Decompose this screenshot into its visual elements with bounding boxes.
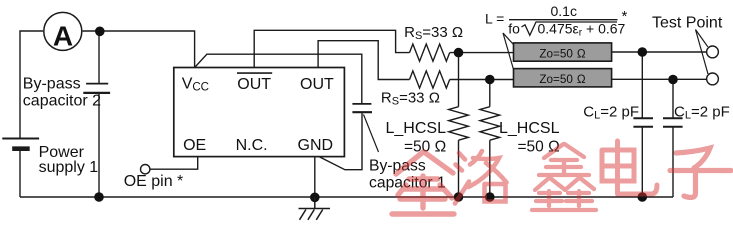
svg-text:RS=33 Ω: RS=33 Ω xyxy=(404,24,463,42)
watermark char jin (gold) xyxy=(392,152,454,214)
ammeter A1 xyxy=(44,12,82,51)
test point circle 2 xyxy=(707,73,719,85)
junction dot CL2 top xyxy=(668,75,678,85)
svg-text:By-pass: By-pass xyxy=(23,75,81,92)
junction dot Rs2/LHCSL xyxy=(485,75,495,85)
wire OUTbar net riser to Rs1 xyxy=(254,30,409,67)
wire GND pin riser xyxy=(314,157,316,197)
svg-text:OUT: OUT xyxy=(300,76,334,93)
junction dot Rs1/LHCSL xyxy=(454,48,464,58)
junction dot CL1 top xyxy=(638,47,648,57)
wire bypass cap1 bottom to GND pin xyxy=(320,113,363,170)
resistor RS2 zigzag xyxy=(410,71,450,88)
wire bottom rail xyxy=(20,196,673,198)
wire Rs2 to Zo box2 xyxy=(450,79,514,81)
wire battery to bottom rail xyxy=(19,150,21,197)
wire bypass cap1 top: diagonal from VCC corner then across xyxy=(195,54,362,103)
resistor RS1 zigzag xyxy=(410,44,450,61)
leader test point 2 xyxy=(696,30,709,75)
transmission line Zo box2 xyxy=(514,69,612,87)
OE pin open circle xyxy=(141,165,150,174)
ground symbol xyxy=(299,197,331,220)
svg-text:OUT: OUT xyxy=(237,76,271,93)
svg-text:CL=2 pF: CL=2 pF xyxy=(583,103,639,121)
svg-text:Test Point: Test Point xyxy=(652,14,723,31)
svg-text:supply 1: supply 1 xyxy=(39,159,99,176)
capacitor bypass C2 plates xyxy=(83,84,110,93)
watermark char xin (triple gold) xyxy=(532,144,596,210)
svg-text:RS=33 Ω: RS=33 Ω xyxy=(381,90,440,108)
formula L = 0.1c / (fo sqrt(0.475er+0.67)) xyxy=(485,3,628,39)
leader test point 1 xyxy=(696,30,708,47)
wire CL cap1 leads xyxy=(641,52,643,118)
wire OUT net riser to Rs2 xyxy=(318,41,409,80)
leader formula to box2 xyxy=(503,33,514,70)
capacitor bypass C1 plates xyxy=(352,104,372,112)
resistor L_HCSL right leads and zigzag xyxy=(489,80,491,107)
wire Rs1 to Zo box1 xyxy=(450,52,514,54)
wire Zo box2 to test point 2 xyxy=(612,78,707,80)
junction dot rail CL1 xyxy=(638,192,648,202)
leader bypass cap1 label xyxy=(364,115,379,153)
svg-text:L_HCSL: L_HCSL xyxy=(386,120,447,137)
svg-text:capacitor 2: capacitor 2 xyxy=(23,93,101,110)
svg-text:0.1c: 0.1c xyxy=(551,3,577,19)
junction dot rail LHCSL left xyxy=(454,192,464,202)
capacitor CL1 plates xyxy=(633,118,653,126)
svg-text:A: A xyxy=(53,20,73,51)
junction dot rail LHCSL right xyxy=(485,192,495,202)
capacitor CL2 plates xyxy=(663,118,683,126)
svg-text:GND: GND xyxy=(298,137,334,154)
test point circle 1 xyxy=(707,46,719,58)
wire CL cap2 leads xyxy=(672,79,674,118)
battery power supply 1 xyxy=(2,139,39,149)
svg-text:fo: fo xyxy=(508,21,520,37)
wire left vertical from ammeter to battery xyxy=(20,31,43,138)
watermark char zi (child) xyxy=(670,148,731,197)
svg-text:OE: OE xyxy=(183,137,206,154)
watermark char dian (electric) xyxy=(602,141,657,194)
radical sign xyxy=(522,22,618,35)
svg-text:N.C.: N.C. xyxy=(236,137,268,154)
wire Zo box1 to test point 1 xyxy=(612,51,707,53)
watermark red CJK text xyxy=(392,141,731,214)
resistor L_HCSL left leads and zigzag xyxy=(458,53,460,107)
junction dot rail GND xyxy=(310,193,320,203)
junction dot top rail cap2 xyxy=(95,27,105,37)
IC U1 box xyxy=(174,68,345,157)
watermark char luo xyxy=(455,151,507,204)
svg-text:L_HCSL: L_HCSL xyxy=(499,120,560,137)
wire OE pin xyxy=(150,157,198,170)
svg-text:L =: L = xyxy=(485,11,504,27)
svg-text:CL=2 pF: CL=2 pF xyxy=(674,103,730,121)
leader formula to box1 xyxy=(503,33,514,45)
svg-text:*: * xyxy=(622,8,628,25)
wire ammeter to VCC riser xyxy=(83,31,195,68)
svg-text:OE pin *: OE pin * xyxy=(124,173,184,190)
svg-text:Zo=50Ω: Zo=50Ω xyxy=(539,73,585,86)
svg-text:0.475εr + 0.67: 0.475εr + 0.67 xyxy=(538,21,626,39)
transmission line Zo box1 xyxy=(514,43,612,61)
junction dot rail cap2 xyxy=(94,192,104,202)
wire cap2 top lead xyxy=(98,31,100,83)
wire cap2 bottom lead xyxy=(98,94,100,197)
svg-text:Zo=50Ω: Zo=50Ω xyxy=(539,47,585,60)
